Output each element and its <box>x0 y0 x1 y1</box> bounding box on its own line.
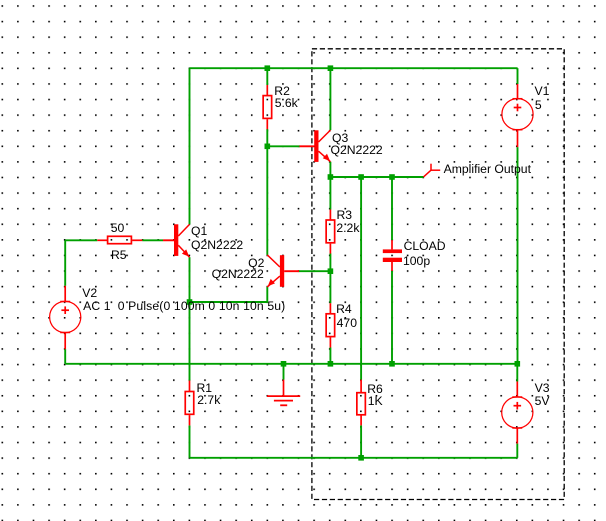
junction output rail CLOAD column <box>389 174 395 180</box>
wire V1 bottom to mid rail <box>517 147 519 364</box>
label Q3 <box>332 132 348 144</box>
wire output node down to R6 <box>360 177 362 380</box>
label R2 value <box>275 97 298 109</box>
label Q3 model <box>331 144 383 156</box>
wire Q1 emitter down to R1 <box>189 257 191 380</box>
wire Q2 base to node <box>299 270 330 272</box>
wire R2 bottom to node <box>266 129 268 146</box>
wire R2 top stub <box>266 68 268 85</box>
wire mid rail node to V3 <box>516 364 518 382</box>
wire ground stub <box>283 364 285 380</box>
label R1 <box>197 382 213 394</box>
wire V3 bottom to bottom rail <box>516 444 518 458</box>
label Q2 model <box>212 268 264 280</box>
resistor R2 <box>263 85 272 129</box>
junction mid rail ground <box>281 361 287 367</box>
label Amplifier Output <box>444 163 531 175</box>
wire R4 bottom to mid rail <box>329 348 331 364</box>
junction mid rail CLOAD <box>389 361 395 367</box>
resistor R4 <box>326 303 335 347</box>
node Amplifier Output flag <box>424 164 441 177</box>
label V2 <box>82 287 97 299</box>
wire R3 bottom to Q2 base node <box>329 253 331 271</box>
wire mid rail <box>65 363 517 365</box>
wire CLOAD bottom to mid rail <box>391 271 393 364</box>
wire bottom rail <box>190 457 518 459</box>
wire R1 bottom to bottom rail <box>189 425 191 457</box>
wire R5 row left <box>65 239 97 241</box>
ground <box>267 380 300 406</box>
resistor R6 <box>357 380 366 426</box>
wire node down to Q2 collector <box>266 146 268 255</box>
label V3 <box>535 382 550 394</box>
resistor R1 <box>185 381 194 426</box>
label R1 value <box>197 394 220 406</box>
wire V2 top to R5 row <box>64 240 66 285</box>
label R5 value 50 <box>111 222 125 234</box>
label Q2 <box>248 257 264 269</box>
label R4 value <box>337 317 357 329</box>
junction mid rail R4 <box>328 361 334 367</box>
label R6 <box>367 383 383 395</box>
selection box (dashed macro boundary) <box>312 49 564 500</box>
label R5 <box>111 249 127 261</box>
voltage source V2 <box>50 286 81 349</box>
label Q1 <box>191 225 207 237</box>
label V1 <box>535 85 550 97</box>
label Q1 model <box>191 239 243 251</box>
junction output rail R6 column <box>358 174 364 180</box>
transistor Q1 <box>163 224 190 257</box>
label R4 <box>336 303 352 315</box>
label CLOAD value <box>403 255 430 267</box>
junction bottom rail R6 <box>358 455 364 461</box>
junction node R2/Q3 base/Q2 collector <box>265 144 271 150</box>
wire V1 top stub <box>517 68 519 84</box>
voltage source V3 <box>502 382 533 444</box>
wire top rail <box>190 67 518 69</box>
junction Q2 base / R3 / R4 <box>328 268 334 274</box>
label R2 <box>274 85 290 97</box>
wire R6 bottom to bottom rail <box>360 425 362 457</box>
label R3 value <box>336 222 359 234</box>
wire V2 bottom corner to mid rail <box>64 349 66 364</box>
label V2 value <box>83 300 285 312</box>
transistor Q3 <box>300 130 331 162</box>
wire R5 to Q1 base <box>142 239 163 241</box>
wire node to Q3 base <box>267 145 300 147</box>
resistor R3 <box>326 210 335 254</box>
junction top rail Q3 collector <box>328 65 334 71</box>
label CLOAD <box>404 240 446 252</box>
junction Q1 emitter / Q2 emitter <box>187 299 193 305</box>
junction top rail R2 <box>265 65 271 71</box>
wire output rail <box>330 176 423 178</box>
label V1 value <box>535 99 542 111</box>
junction output rail Q3 emitter <box>328 174 334 180</box>
resistor R5 (horizontal) <box>97 236 142 243</box>
wire Q1 collector to top rail <box>189 68 191 224</box>
label V3 value <box>535 395 550 407</box>
label R3 <box>337 209 353 221</box>
wire Q3 collector stub <box>329 68 331 130</box>
wire output node down to CLOAD <box>391 177 393 240</box>
wire Q1 emitter node to Q2 emitter <box>190 287 268 302</box>
wire node down to R4 <box>329 271 331 303</box>
label R6 value <box>368 395 383 407</box>
wire Q3 emitter stub <box>329 162 331 177</box>
voltage source V1 <box>502 84 533 147</box>
capacitor CLOAD <box>383 240 402 271</box>
junction mid rail V1/V3 column <box>515 361 521 367</box>
transistor Q2 (mirrored) <box>267 255 299 287</box>
wire R3 top stub <box>329 177 331 210</box>
